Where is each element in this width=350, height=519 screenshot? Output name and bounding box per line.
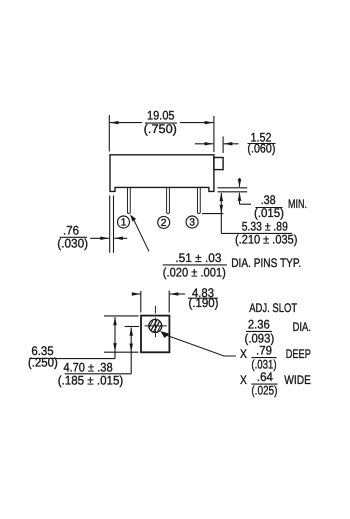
svg-text:4.70 ± .38: 4.70 ± .38 (63, 360, 112, 374)
svg-text:19.05: 19.05 (147, 109, 175, 123)
rect-bottom extension line (104, 351, 139, 353)
svg-text:5.33 ± .89: 5.33 ± .89 (242, 219, 288, 233)
svg-text:.76: .76 (63, 223, 79, 237)
svg-text:MIN.: MIN. (288, 197, 307, 211)
screw-center extension line (125, 326, 140, 328)
leader arrow from screw slot to ADJ. SLOT note (160, 331, 236, 356)
pin 2 lead (167, 187, 170, 213)
dimension .76 (.030) pin offset from edge (57, 195, 127, 252)
leader arrow from pin 1 to diameter note (130, 214, 149, 251)
svg-text:2: 2 (161, 218, 167, 229)
svg-text:.79: .79 (256, 344, 272, 358)
pin 3 lead (197, 187, 200, 213)
svg-text:(.210 ± .035): (.210 ± .035) (235, 232, 297, 246)
trimmer body outline (side view) (110, 155, 214, 192)
rect-top extension line (104, 315, 139, 317)
svg-text:(.750): (.750) (144, 122, 177, 136)
pin 1 lead (127, 187, 130, 213)
pin number callout 1 (118, 216, 130, 229)
mounting tab on right side of body (214, 158, 223, 170)
svg-text:X: X (240, 347, 247, 361)
svg-text:(.060): (.060) (247, 142, 275, 156)
svg-text:2.36: 2.36 (248, 317, 270, 331)
dimension 5.33 ± .89 (.210 ± .035) pin length (202, 193, 297, 247)
pin number callout 2 (158, 216, 170, 229)
svg-text:.64: .64 (257, 370, 273, 384)
X .64 (.025) WIDE note (240, 370, 311, 398)
svg-text:DEEP: DEEP (286, 347, 311, 361)
svg-text:DIA.: DIA. (293, 320, 311, 334)
svg-text:(.015): (.015) (254, 206, 284, 220)
dimension 1.52 (.060) tab width (195, 130, 276, 155)
svg-text:X: X (240, 373, 247, 387)
dimension 6.35 (.250) end view height (28, 317, 117, 370)
screw centerline crosshair (145, 306, 167, 337)
svg-text:3: 3 (189, 218, 195, 229)
svg-text:.51 ± .03: .51 ± .03 (175, 251, 221, 265)
adjustment screw circle with hatched slot (147, 317, 163, 335)
svg-text:(.020 ± .001): (.020 ± .001) (163, 265, 226, 279)
svg-text:(.190): (.190) (189, 296, 219, 310)
end view housing rectangle (141, 316, 169, 353)
dimension .38 (.015) MIN standoff (218, 178, 308, 220)
dimension .51 ± .03 (.020 ± .001) DIA. PINS TYP. (163, 251, 301, 280)
dimension 4.70 ± .38 (.185 ± .015) screw center height (58, 327, 133, 387)
svg-text:WIDE: WIDE (284, 373, 311, 387)
X .79 (.031) DEEP note (240, 344, 311, 372)
svg-text:ADJ. SLOT: ADJ. SLOT (249, 301, 297, 315)
svg-text:(.250): (.250) (28, 356, 58, 370)
svg-text:(.185 ± .015): (.185 ± .015) (58, 373, 124, 387)
svg-text:DIA. PINS TYP.: DIA. PINS TYP. (231, 256, 301, 270)
svg-text:(.025): (.025) (251, 384, 277, 398)
pin number callout 3 (186, 216, 198, 229)
ADJ. SLOT note text (245, 301, 311, 345)
svg-text:(.030): (.030) (57, 237, 88, 251)
dimension 4.83 (.190) end view width (132, 286, 219, 313)
svg-text:1: 1 (121, 218, 127, 229)
dimension 19.05 (.750) overall width (109, 108, 214, 152)
